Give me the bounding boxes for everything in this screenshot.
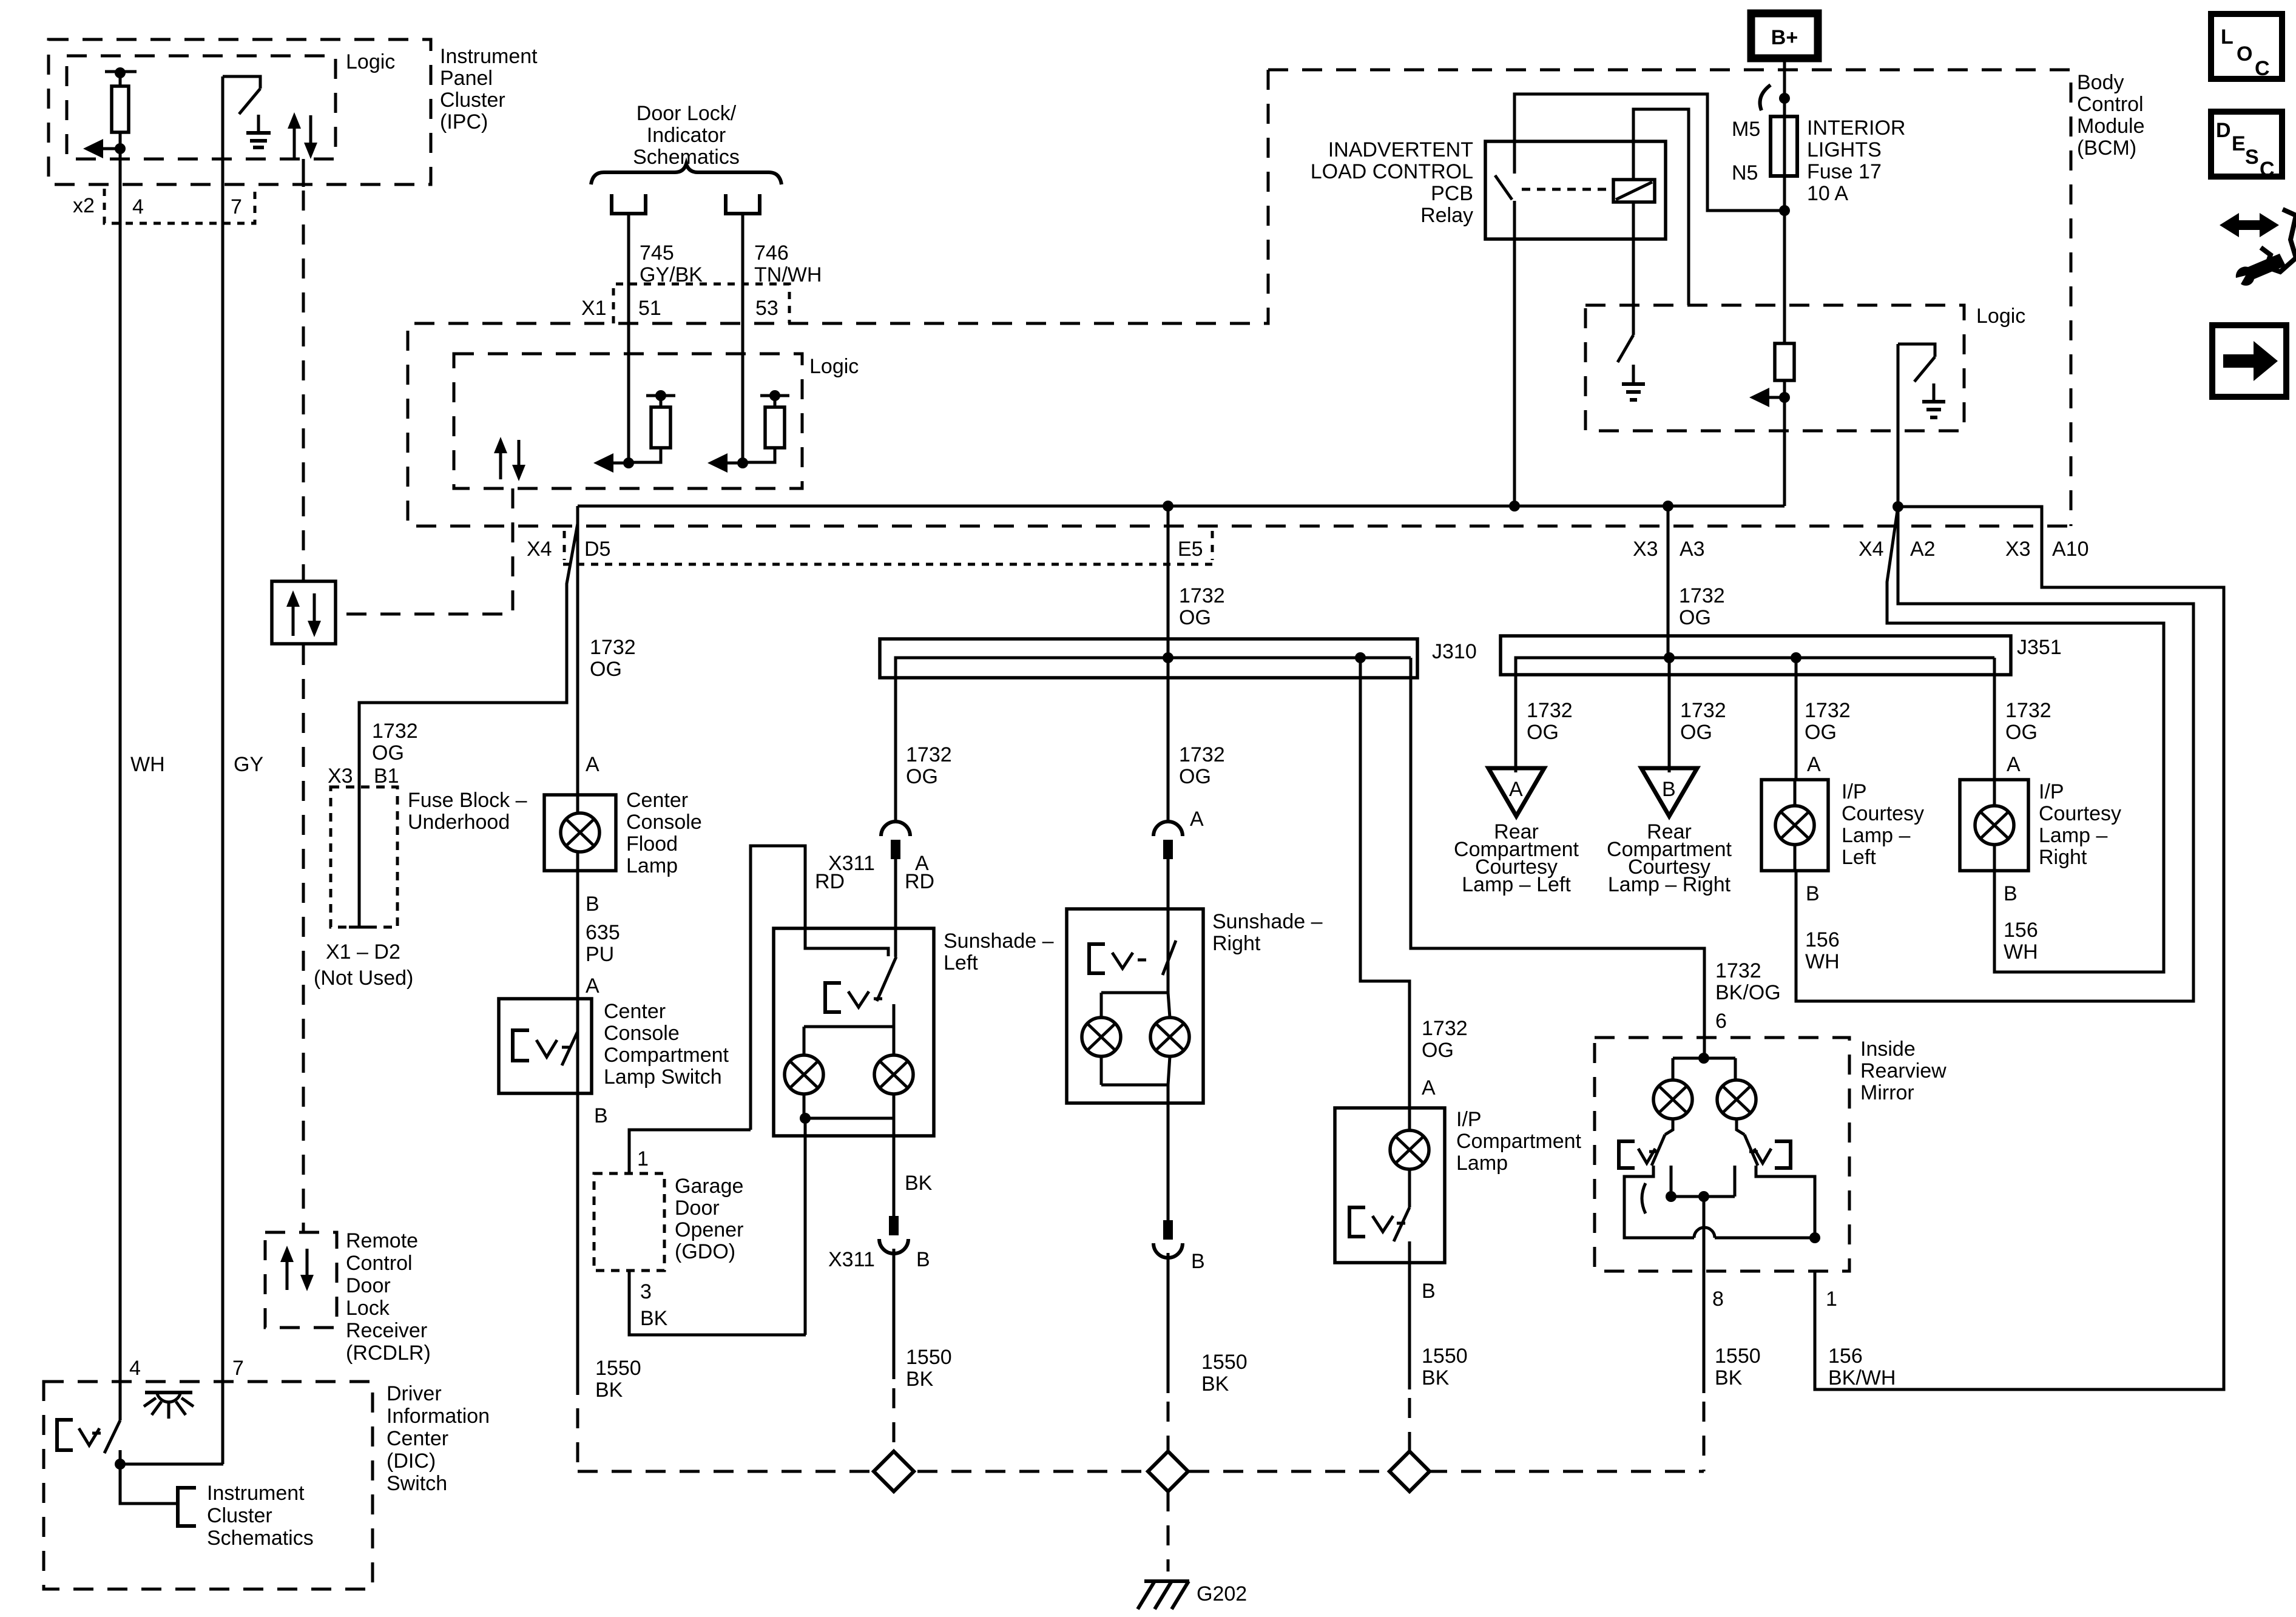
- wire: serial data stub below arrows: [302, 159, 305, 187]
- wire: pin 8 down: [1703, 1197, 1706, 1271]
- svg-text:1732: 1732: [590, 636, 636, 659]
- svg-text:Remote: Remote: [346, 1229, 418, 1252]
- svg-text:6: 6: [1715, 1010, 1727, 1033]
- svg-text:E: E: [2232, 132, 2246, 155]
- wire: I/P courtesy lamp left feed: [1795, 658, 1798, 780]
- svg-text:Instrument: Instrument: [207, 1482, 305, 1505]
- wire: GY from IPC pin7 down to DIC: [221, 76, 225, 1464]
- mirror switch glyph left: [1619, 1141, 1635, 1168]
- junction dot A3 on bus: [1664, 652, 1675, 663]
- dashed data link from logic box down/left to data box: [336, 488, 513, 614]
- lamp symbol sunshade-right 2: [1150, 1018, 1189, 1056]
- svg-text:Courtesy: Courtesy: [2039, 802, 2121, 825]
- wire: return to X311-B: [893, 1118, 896, 1216]
- wire: E5 drop to J310 and sunshade-right: [1167, 506, 1170, 820]
- svg-text:Flood: Flood: [626, 832, 678, 856]
- mirror internal ladder left: [1624, 1166, 1694, 1238]
- svg-text:1732: 1732: [906, 743, 952, 766]
- lamp symbol sunshade-left 2: [874, 1055, 913, 1094]
- wire: A3 drop from BCM to J351: [1667, 506, 1670, 658]
- junction dot A3 drop: [1663, 501, 1673, 511]
- svg-text:OG: OG: [1680, 721, 1712, 744]
- svg-text:Opener: Opener: [675, 1218, 743, 1241]
- wire: DIC switch output: [119, 1450, 122, 1464]
- lamp box: Center Console Flood Lamp: [544, 795, 616, 871]
- svg-text:B: B: [1662, 778, 1676, 801]
- wire: mirror feed from J310 end: [1411, 658, 1704, 1038]
- connector row: dotted line under BCM pins D5/E5: [563, 563, 1212, 566]
- serial data arrows (IPC logic) up/down: [293, 118, 296, 158]
- svg-text:BK: BK: [1201, 1372, 1229, 1396]
- svg-text:Left: Left: [1842, 846, 1876, 869]
- svg-text:B+: B+: [1771, 26, 1798, 49]
- junction dot A2/A10 node: [1893, 501, 1903, 512]
- svg-text:10 A: 10 A: [1807, 182, 1848, 205]
- wire into sunshade-left switch: [894, 859, 897, 957]
- junction dot at IPC resistor output: [115, 143, 126, 154]
- wire: rear courtesy lamp left feed: [1514, 658, 1518, 772]
- svg-text:Sunshade –: Sunshade –: [944, 930, 1054, 953]
- svg-text:Sunshade –: Sunshade –: [1212, 910, 1323, 933]
- svg-text:156: 156: [1828, 1345, 1863, 1368]
- wire: 635 PU lamp to switch: [576, 871, 579, 999]
- signal arrow to logic: [1766, 396, 1784, 399]
- crossover bump over pin8 wire: [1694, 1227, 1715, 1238]
- svg-text:RD: RD: [815, 870, 845, 893]
- lamp symbol courtesy left: [1775, 806, 1814, 845]
- switch glyph: [513, 1030, 529, 1061]
- svg-text:BK: BK: [1422, 1366, 1450, 1389]
- icon: diagnostic arrows and wrench: [2220, 213, 2279, 237]
- connector stub X4/D5: [563, 531, 566, 560]
- relay driver switch blade: [1618, 335, 1633, 362]
- page-continuation fork (wire 746): [726, 194, 760, 214]
- sunshade-right switch blade: [1163, 940, 1176, 975]
- svg-text:C: C: [2255, 57, 2270, 80]
- svg-text:Driver: Driver: [387, 1382, 442, 1405]
- svg-text:D5: D5: [584, 538, 610, 561]
- wire: lamp returns joined: [804, 1117, 894, 1120]
- svg-text:Cluster: Cluster: [207, 1504, 272, 1527]
- power feed: B+ terminal box: [1751, 13, 1818, 58]
- svg-text:Lamp: Lamp: [1456, 1152, 1508, 1175]
- signal arrow (to logic) pointing left: [100, 147, 120, 150]
- svg-text:BK/OG: BK/OG: [1715, 981, 1781, 1004]
- svg-text:I/P: I/P: [1842, 780, 1867, 803]
- svg-text:A10: A10: [2052, 538, 2089, 561]
- icon: arrow box: [2212, 325, 2286, 397]
- svg-text:(DIC): (DIC): [387, 1450, 436, 1473]
- svg-text:Schematics: Schematics: [207, 1527, 314, 1550]
- ground symbol (relay driver): [1632, 365, 1635, 384]
- svg-text:51: 51: [638, 297, 661, 320]
- wire: sunshade-left loop from GDO pin1 up and into box: [751, 846, 888, 1130]
- svg-text:N5: N5: [1732, 161, 1758, 184]
- ground bus dashed line: [578, 1470, 1704, 1473]
- DIC switch glyph: [57, 1420, 73, 1450]
- bracket link to instrument cluster schematics: [178, 1488, 196, 1526]
- wire: I/P compartment lamp tap: [1360, 658, 1410, 1108]
- svg-text:OG: OG: [1179, 606, 1211, 629]
- wires: sunshade-left lamps: [893, 1004, 896, 1027]
- svg-text:Compartment: Compartment: [1456, 1130, 1582, 1153]
- svg-text:x2: x2: [73, 194, 95, 217]
- svg-text:Rearview: Rearview: [1860, 1059, 1947, 1082]
- svg-text:PCB: PCB: [1431, 182, 1473, 205]
- svg-text:1550: 1550: [1422, 1345, 1468, 1368]
- svg-text:A: A: [1422, 1076, 1436, 1099]
- svg-text:A: A: [1807, 753, 1821, 776]
- svg-text:Cluster: Cluster: [440, 89, 505, 112]
- mirror internal stubs and output bus: [1670, 1166, 1673, 1197]
- dashed drop to G202: [1167, 1491, 1170, 1571]
- lamp symbol compartment lamp: [1390, 1130, 1429, 1169]
- brace under header: [591, 164, 782, 184]
- svg-text:PU: PU: [586, 943, 614, 966]
- svg-text:Information: Information: [387, 1405, 490, 1428]
- svg-text:BK/WH: BK/WH: [1828, 1366, 1896, 1389]
- svg-text:Console: Console: [626, 811, 702, 834]
- inline connector X311-A (right sunshade): [1153, 822, 1183, 836]
- wire: DIC output to instrument cluster link: [120, 1464, 178, 1504]
- junction dot pin1 node: [1809, 1232, 1820, 1243]
- fuse clip mark: [1760, 85, 1771, 110]
- wire: coil top to BCM logic: [1633, 109, 1689, 305]
- svg-text:1: 1: [637, 1147, 649, 1170]
- lamp box: I/P Courtesy Lamp Left: [1761, 780, 1828, 871]
- svg-text:X3: X3: [328, 765, 353, 788]
- svg-text:B: B: [1422, 1280, 1436, 1303]
- svg-text:Logic: Logic: [1976, 305, 2025, 328]
- svg-text:3: 3: [640, 1280, 652, 1303]
- wire: main 1732 OG feed from BCM output: [578, 505, 1784, 508]
- ground diamond (sunshade right): [1148, 1451, 1188, 1491]
- connector stub E5: [1211, 531, 1214, 560]
- svg-text:OG: OG: [590, 658, 622, 681]
- svg-text:(RCDLR): (RCDLR): [346, 1342, 431, 1365]
- connector X1 dotted outline: [613, 284, 789, 323]
- svg-text:Body: Body: [2077, 71, 2124, 94]
- svg-text:Switch: Switch: [387, 1472, 447, 1495]
- relay actuation dashed link: [1522, 188, 1613, 191]
- svg-text:1732: 1732: [1805, 699, 1851, 722]
- svg-text:1550: 1550: [1201, 1351, 1248, 1374]
- svg-text:Underhood: Underhood: [408, 811, 510, 834]
- wire: dashed ground drop to ground bus: [576, 1408, 579, 1471]
- svg-text:WH: WH: [2004, 940, 2038, 964]
- svg-text:S: S: [2245, 146, 2259, 169]
- svg-text:OG: OG: [372, 741, 404, 765]
- wire: rear courtesy lamp right feed: [1668, 658, 1671, 772]
- svg-text:O: O: [2237, 42, 2252, 66]
- svg-text:BK: BK: [1715, 1366, 1743, 1389]
- svg-text:1732: 1732: [1179, 743, 1225, 766]
- svg-text:A: A: [1509, 778, 1523, 801]
- svg-text:4: 4: [132, 195, 144, 218]
- wire: DIC output to pin7 GY: [120, 1463, 223, 1466]
- svg-text:Door: Door: [675, 1197, 720, 1220]
- ground diamond (compartment lamp) redraw: [1389, 1451, 1430, 1491]
- wire: WH from IPC pin4 down to DIC switch: [119, 149, 122, 1420]
- lamp box: I/P Courtesy Lamp Right: [1960, 780, 2028, 871]
- logic sub-box (door lock logic in BCM): [454, 354, 802, 488]
- lamp symbol courtesy right: [1975, 806, 2014, 845]
- svg-text:X1 – D2: X1 – D2: [326, 940, 400, 964]
- svg-text:Right: Right: [1212, 932, 1261, 955]
- svg-text:Logic: Logic: [346, 50, 395, 73]
- mirror internal right ladder: [1756, 1166, 1815, 1238]
- mirror switch glyph right (mirrored): [1775, 1141, 1791, 1168]
- sunshade-right box: [1067, 909, 1203, 1103]
- icon: DESC box: [2211, 112, 2282, 177]
- svg-text:B: B: [916, 1248, 930, 1271]
- svg-text:OG: OG: [1805, 721, 1837, 744]
- svg-text:Center: Center: [604, 1000, 666, 1023]
- splice pack J351 busbar: [1501, 636, 2011, 675]
- svg-text:1732: 1732: [1679, 584, 1725, 607]
- junction dot sunshade-left return: [800, 1113, 811, 1124]
- svg-text:Lamp –: Lamp –: [2039, 824, 2107, 847]
- splice pack J310 busbar: [880, 639, 1417, 678]
- dashed pin8 to ground bus: [1703, 1402, 1706, 1471]
- ground symbol (return switch): [1933, 383, 1936, 402]
- serial data interface box (framed up/down arrows): [272, 581, 336, 644]
- lamp symbol sunshade-left 1: [785, 1055, 823, 1094]
- svg-text:B1: B1: [374, 765, 399, 788]
- wire: D5 drop to flood lamp: [576, 506, 579, 795]
- junction dot 51 node: [623, 457, 634, 468]
- junction dot on T-bar: [115, 67, 126, 78]
- switch box: Center Console Compartment Lamp Switch: [499, 999, 592, 1093]
- svg-text:Fuse 17: Fuse 17: [1807, 160, 1882, 183]
- curl actuator mark: [1642, 1183, 1646, 1214]
- icon: LOC box: [2211, 14, 2282, 79]
- off-page triangle B (rear compartment courtesy lamp right): [1641, 768, 1697, 816]
- svg-text:635: 635: [586, 921, 620, 944]
- sunshade-left switch glyph: [825, 983, 841, 1012]
- sunshade-left box: [774, 928, 934, 1136]
- svg-text:A: A: [1190, 808, 1204, 831]
- wire: A2 slant return (right courtesy) staircase: [1887, 507, 2164, 972]
- svg-text:GY: GY: [234, 753, 263, 776]
- svg-text:Center: Center: [626, 789, 688, 812]
- svg-text:A: A: [586, 753, 599, 776]
- svg-text:L: L: [2221, 25, 2234, 49]
- svg-text:BK: BK: [640, 1307, 668, 1330]
- connector box (IPC x2 pins 4,7): [104, 189, 255, 223]
- svg-text:LOAD CONTROL: LOAD CONTROL: [1311, 160, 1473, 183]
- svg-text:Control: Control: [2077, 93, 2144, 116]
- sunshade-right switch glyph: [1089, 944, 1105, 973]
- svg-text:1732: 1732: [372, 720, 418, 743]
- svg-text:I/P: I/P: [1456, 1108, 1482, 1131]
- svg-text:J351: J351: [2017, 636, 2062, 659]
- svg-text:X3: X3: [1633, 538, 1658, 561]
- ground symbol (IPC internal): [257, 115, 260, 131]
- svg-text:OG: OG: [1679, 606, 1711, 629]
- svg-text:Mirror: Mirror: [1860, 1081, 1914, 1104]
- svg-text:BK: BK: [905, 1172, 933, 1195]
- wire: branch through D5 to fuse block (slanted): [359, 524, 578, 927]
- junction dot resistor output: [1779, 392, 1790, 403]
- wire: 1550 BK from switch down: [576, 1093, 579, 1395]
- lamp symbol sunshade-right 1: [1082, 1018, 1121, 1056]
- illumination lamp symbol in DIC: [145, 1391, 192, 1394]
- lamp symbol flood lamp: [561, 813, 599, 852]
- GDO pin3 wire: [629, 1271, 806, 1335]
- wire 745 GY/BK from fork to BCM X1-51: [627, 214, 630, 463]
- svg-text:Lock: Lock: [346, 1297, 390, 1320]
- svg-text:Indicator: Indicator: [647, 124, 726, 147]
- dashed drop to ground diamond: [893, 1388, 896, 1451]
- wire: bus inner conductor: [896, 658, 1411, 822]
- inline connector X311-A (left): socket arc and pin: [881, 822, 910, 836]
- serial data arrows RCDLR: [286, 1252, 289, 1290]
- lamp box: I/P Compartment Lamp: [1335, 1108, 1445, 1263]
- svg-text:OG: OG: [1179, 765, 1211, 788]
- mirror switch blade right: [1744, 1135, 1758, 1166]
- fuse: INTERIOR LIGHTS Fuse 17 10A: [1771, 116, 1797, 176]
- svg-text:INTERIOR: INTERIOR: [1807, 116, 1905, 140]
- switch (IPC input pin 7) with blade: [223, 76, 260, 89]
- mirror switch blade left: [1652, 1135, 1665, 1166]
- wire: B+ down to fuse: [1783, 58, 1786, 116]
- ground diamond (sunshade left) redraw: [874, 1451, 914, 1491]
- svg-text:A: A: [586, 974, 599, 998]
- svg-text:Module: Module: [2077, 115, 2145, 138]
- junction dot 53 node: [737, 457, 748, 468]
- wire into sunshade-right: [1167, 859, 1170, 942]
- junction dot mirror output: [1666, 1191, 1676, 1202]
- signal arrow 51 to logic: [610, 462, 629, 465]
- wire: A2 return (left courtesy) staircase: [1796, 507, 2193, 1001]
- ground diamond (sunshade left): [874, 1451, 914, 1491]
- junction dot DIC output: [115, 1459, 126, 1470]
- svg-text:(GDO): (GDO): [675, 1240, 735, 1263]
- svg-text:1732: 1732: [2005, 699, 2051, 722]
- wire 746 TN/WH from fork to BCM X1-53: [741, 214, 745, 463]
- svg-text:B: B: [594, 1104, 608, 1127]
- svg-text:1732: 1732: [1527, 699, 1573, 722]
- inline connector B (right sunshade): [1163, 1220, 1173, 1240]
- svg-text:OG: OG: [906, 765, 938, 788]
- dashed drop to ground diamond: [1167, 1402, 1170, 1451]
- svg-text:1732: 1732: [1422, 1017, 1468, 1040]
- svg-text:(Not Used): (Not Used): [314, 967, 413, 990]
- svg-text:Lamp Switch: Lamp Switch: [604, 1065, 722, 1089]
- svg-text:I/P: I/P: [2039, 780, 2064, 803]
- junction dot mirror pin8 node: [1698, 1191, 1709, 1202]
- svg-text:OG: OG: [2005, 721, 2038, 744]
- wire: 1550 BK to ground: [893, 1249, 896, 1379]
- svg-text:A: A: [2007, 753, 2021, 776]
- svg-text:1550: 1550: [906, 1346, 952, 1369]
- resistor (IPC pull-up): [119, 73, 122, 86]
- svg-text:(BCM): (BCM): [2077, 137, 2136, 160]
- svg-text:OG: OG: [1527, 721, 1559, 744]
- svg-text:WH: WH: [130, 753, 165, 776]
- svg-text:Console: Console: [604, 1022, 680, 1045]
- ground switch (lamp return control): [1898, 344, 1935, 357]
- off-page triangle A (rear compartment courtesy lamp left): [1488, 768, 1544, 816]
- svg-text:BK: BK: [906, 1368, 934, 1391]
- wire: return to GDO loop: [804, 1118, 807, 1335]
- svg-text:C: C: [2260, 158, 2275, 181]
- svg-text:(IPC): (IPC): [440, 110, 488, 133]
- module box: RCDLR dashed: [265, 1232, 337, 1328]
- wire: coil bottom to logic driver switch: [1632, 202, 1635, 335]
- svg-text:Right: Right: [2039, 846, 2087, 869]
- svg-text:A3: A3: [1680, 538, 1705, 561]
- resistor (51 input pull-up) with T-bar: [646, 394, 675, 397]
- svg-text:Door: Door: [346, 1274, 391, 1297]
- relay switch blade: [1495, 175, 1512, 200]
- svg-text:156: 156: [2004, 919, 2038, 942]
- svg-text:B: B: [2004, 882, 2017, 905]
- ground G202 symbol: [1144, 1579, 1189, 1583]
- svg-text:M5: M5: [1732, 118, 1760, 141]
- svg-text:OG: OG: [1422, 1039, 1454, 1062]
- svg-text:G202: G202: [1197, 1582, 1247, 1605]
- svg-text:Lamp: Lamp: [626, 854, 678, 877]
- junction dot mirror feed: [1698, 1053, 1709, 1064]
- svg-text:Relay: Relay: [1420, 204, 1473, 227]
- wire: lamp returns joined: [1101, 1084, 1168, 1087]
- relay box: INADVERTENT LOAD CONTROL PCB Relay: [1485, 141, 1666, 239]
- garage door opener dashed box: [594, 1173, 664, 1271]
- junction dot IP compartment lamp tap: [1355, 652, 1366, 663]
- lamp symbol mirror 1: [1653, 1080, 1692, 1119]
- svg-text:Garage: Garage: [675, 1175, 743, 1198]
- inline connector X311-B (left): pin and socket arc: [889, 1216, 899, 1235]
- dashed serial data from data box down to RCDLR: [302, 645, 305, 1232]
- svg-text:Left: Left: [944, 951, 978, 974]
- svg-text:Logic: Logic: [809, 355, 859, 378]
- svg-text:Lamp – Left: Lamp – Left: [1462, 873, 1571, 896]
- wire: BCM lamp feed output down to main feed corner: [1783, 431, 1786, 506]
- svg-text:B: B: [1806, 882, 1820, 905]
- junction dot E5 on bus: [1163, 652, 1173, 663]
- page-continuation fork (wire 745): [612, 194, 646, 214]
- resistor (53 input pull-up) with T-bar: [760, 394, 789, 397]
- svg-text:Receiver: Receiver: [346, 1319, 427, 1342]
- logic sub-box (BCM output logic): [1585, 305, 1964, 431]
- svg-text:4: 4: [129, 1357, 141, 1380]
- ground diamond (sunshade right) redraw: [1148, 1451, 1188, 1491]
- svg-text:D: D: [2216, 119, 2231, 142]
- svg-text:Instrument: Instrument: [440, 45, 538, 68]
- wire: fuse output down into BCM logic: [1783, 176, 1786, 343]
- relay coil: [1613, 180, 1655, 202]
- svg-text:745: 745: [640, 241, 674, 265]
- node: IPC internal supply T-bar: [105, 70, 137, 73]
- svg-text:Compartment: Compartment: [604, 1044, 729, 1067]
- sunshade-left switch blade: [877, 957, 896, 1001]
- DIC switch blade: [104, 1420, 120, 1453]
- svg-text:1732: 1732: [1179, 584, 1225, 607]
- svg-text:Fuse Block –: Fuse Block –: [408, 789, 527, 812]
- serial data arrows in door-lock logic: [499, 443, 502, 479]
- svg-text:156: 156: [1805, 928, 1840, 951]
- signal arrow 53 to logic: [724, 462, 743, 465]
- svg-text:Door Lock/: Door Lock/: [636, 102, 737, 125]
- wire: 1550 BK to ground: [1167, 1253, 1170, 1393]
- svg-text:B: B: [586, 893, 599, 916]
- svg-text:X4: X4: [527, 538, 552, 561]
- wire: return switch to A2/A10 node: [1897, 344, 1900, 507]
- svg-text:X1: X1: [581, 297, 607, 320]
- svg-text:1550: 1550: [595, 1357, 641, 1380]
